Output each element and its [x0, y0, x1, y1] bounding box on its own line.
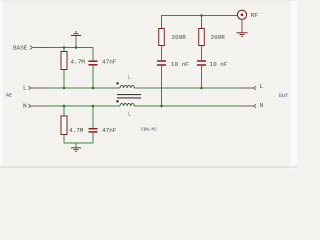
svg-text:CDN-M2: CDN-M2 — [141, 127, 157, 132]
capacitor C2 47nF — [89, 129, 98, 132]
svg-text:10 nF: 10 nF — [171, 61, 189, 68]
wire N net left — [32, 105, 121, 107]
svg-text:10 nF: 10 nF — [210, 61, 228, 68]
wire R2 top lead — [63, 106, 65, 116]
wire branch2 top lead — [201, 16, 203, 29]
svg-text:N: N — [260, 102, 264, 109]
svg-text:RF: RF — [251, 12, 259, 19]
node junction BASE/R1 — [63, 46, 66, 49]
ground GND2 — [71, 148, 81, 152]
wire branch1 mid lead — [161, 46, 163, 61]
wire branch1 top lead — [161, 15, 163, 29]
port arrow L left — [29, 86, 32, 90]
resistor R3 200R — [159, 29, 165, 46]
resistor R1 4.7M — [61, 52, 67, 70]
svg-text:L: L — [260, 83, 264, 90]
wire L port pin right (dark) — [242, 87, 254, 89]
wire branch2 bottom lead — [201, 66, 203, 88]
port arrow N left — [29, 104, 32, 108]
wire L net right — [134, 87, 253, 89]
wire bottom tie — [64, 142, 93, 144]
wire C1 bottom lead — [92, 66, 94, 88]
node junction N/C3 — [160, 105, 163, 108]
svg-text:47nF: 47nF — [102, 127, 117, 134]
wire N port pin right (dark) — [242, 105, 254, 107]
wire RF ground stem — [241, 19, 243, 32]
svg-text:L: L — [128, 110, 132, 117]
wire N port pin left (dark) — [32, 105, 49, 107]
node junction N/R2 — [63, 105, 66, 108]
svg-text:L: L — [127, 74, 131, 81]
wire branch2 mid lead — [201, 46, 203, 61]
wire branch1 bottom lead — [161, 66, 163, 106]
svg-text:AE: AE — [6, 93, 12, 99]
wire N net right — [134, 105, 253, 107]
capacitor C4 10nF — [197, 61, 206, 65]
wire C2 top lead — [92, 106, 94, 128]
resistor R2 4.7M — [61, 116, 67, 135]
svg-text:4.7M: 4.7M — [69, 127, 84, 134]
wire R2 bottom lead — [63, 135, 65, 144]
port arrow L right — [254, 86, 257, 90]
wire GND stem — [75, 36, 77, 48]
wire L port pin left (dark) — [32, 87, 49, 89]
connector RF coax — [237, 10, 246, 19]
wire C1 top lead — [92, 48, 94, 61]
wire BASE port pin (dark) — [33, 47, 49, 49]
wire C2 bottom lead — [92, 133, 94, 143]
ground GND3 — [237, 33, 248, 37]
svg-text:L: L — [23, 84, 27, 91]
node junction N/C2 — [92, 105, 95, 108]
inductor L1 (top coil) — [120, 86, 134, 88]
wire BASE net — [33, 47, 93, 49]
svg-text:BASE: BASE — [13, 45, 28, 52]
polarity dot L2 — [116, 100, 118, 102]
node junction BASE/GND — [75, 46, 78, 49]
node junction L/C1 — [92, 87, 95, 90]
capacitor C1 47nF — [89, 61, 98, 65]
polarity dot L1 — [116, 82, 118, 84]
inductor L2 (bottom coil) — [120, 104, 134, 106]
svg-text:4.7M: 4.7M — [71, 59, 86, 66]
port arrow N right — [254, 104, 257, 108]
ground GND1 — [71, 32, 81, 36]
wire R1 top lead — [63, 48, 65, 52]
node junction L/R1 — [63, 87, 66, 90]
svg-text:200R: 200R — [211, 34, 226, 41]
wire RF net top — [162, 15, 238, 17]
transformer core — [117, 95, 141, 98]
svg-text:EUT: EUT — [279, 93, 288, 99]
node junction L/C4 — [200, 87, 203, 90]
node junction top/branch2 — [200, 14, 203, 17]
wire R1 bottom lead — [63, 70, 65, 89]
svg-text:N: N — [23, 103, 27, 110]
port arrow BASE — [30, 46, 33, 50]
capacitor C3 10nF — [157, 61, 166, 65]
svg-text:200R: 200R — [172, 34, 187, 41]
wire L net left — [32, 87, 121, 89]
wire GND2 stem — [75, 143, 77, 148]
resistor R4 200R — [199, 29, 205, 46]
svg-text:47nF: 47nF — [102, 59, 117, 66]
